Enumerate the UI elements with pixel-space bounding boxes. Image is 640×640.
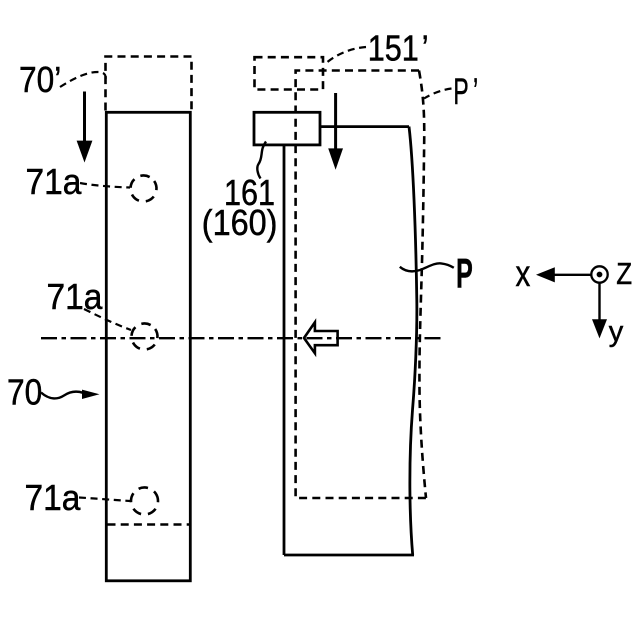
plate P: bottom edge — [284, 554, 414, 557]
holder 161 (small solid rectangle) — [254, 112, 320, 145]
leader from 71a (top) to top circle — [80, 183, 130, 188]
svg-text:71a: 71a — [47, 278, 103, 317]
leader squiggle from label P to plate edge — [400, 263, 454, 271]
hole 71a (bottom dashed circle) — [126, 482, 164, 520]
coordinate axes: x arrow — [552, 274, 592, 276]
hole 71a (middle dashed circle) — [126, 318, 162, 354]
svg-text:(160): (160) — [202, 203, 278, 243]
leader from 71a (bottom) to bottom circle — [79, 498, 130, 502]
hollow leftward arrow on axis — [304, 322, 338, 353]
svg-text:x: x — [516, 254, 531, 295]
svg-text:Z: Z — [616, 256, 632, 290]
leader from label P' to dashed edge — [424, 89, 452, 99]
downward movement arrow (left, under 70') — [83, 92, 86, 145]
svg-text:70: 70 — [7, 373, 42, 413]
downward movement arrow (middle, under 151') — [334, 93, 337, 151]
coordinate axes: z origin circle (out of page) — [591, 266, 607, 282]
dashed line inside member 70 near bottom — [108, 523, 191, 526]
dashed outline 70' (pre-move position of member 70) — [106, 57, 192, 111]
hole 71a (top dashed circle) — [125, 170, 161, 206]
dashed outline P' (pre-move position of plate P) — [296, 71, 426, 499]
leader with arrow from label 70 to member 70 — [41, 392, 83, 399]
dashed right edge of P' (wavy) — [419, 71, 426, 499]
dashed outline 151' (pre-move position of holder 161) — [255, 57, 324, 89]
svg-text:y: y — [609, 316, 624, 348]
center axis dash-dot line — [41, 337, 443, 339]
svg-text:71a: 71a — [25, 479, 81, 518]
svg-text:70’: 70’ — [19, 60, 61, 100]
plate P: left edge — [283, 145, 286, 555]
leader from 71a (middle) to middle circle — [84, 309, 131, 330]
leader from label 151' to dashed outline — [325, 47, 366, 64]
svg-text:71a: 71a — [26, 163, 82, 202]
leader from label 70' to dashed outline — [60, 72, 106, 87]
svg-text:P’: P’ — [453, 70, 478, 112]
svg-text:P: P — [456, 251, 473, 297]
plate P: top edge — [320, 125, 409, 128]
plate P: right edge (slightly wavy) — [409, 127, 417, 555]
member 70 (solid rectangle) — [106, 112, 190, 581]
coordinate axes: y arrow — [598, 284, 600, 322]
leader squiggle from 161 to holder rectangle — [257, 142, 266, 179]
